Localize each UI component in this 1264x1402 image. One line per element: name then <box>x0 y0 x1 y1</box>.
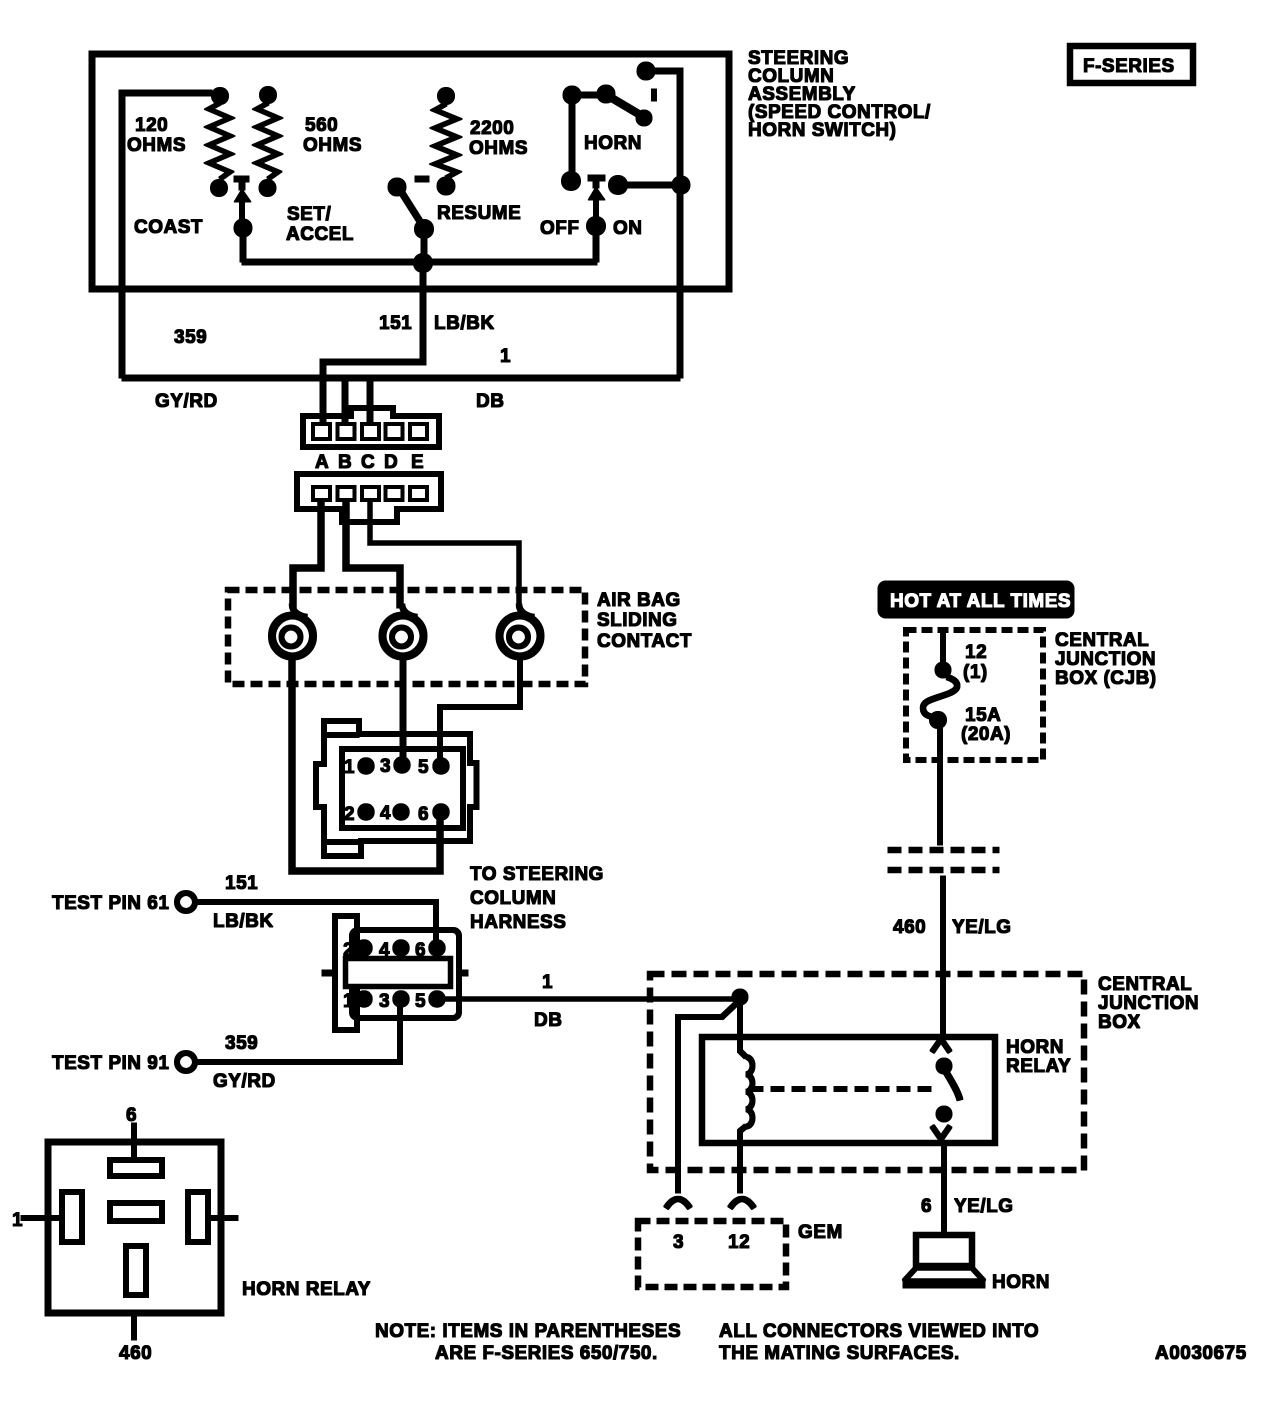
svg-text:2: 2 <box>343 940 354 961</box>
svg-text:3: 3 <box>379 991 390 1012</box>
wire pin C to coil 3 <box>370 500 519 608</box>
svg-text:TEST PIN 91: TEST PIN 91 <box>52 1053 169 1074</box>
air bag sliding contact box <box>228 590 585 684</box>
GEM box <box>638 1221 786 1287</box>
svg-text:3: 3 <box>673 1232 684 1253</box>
resistor R2 560 OHMS <box>257 87 278 197</box>
svg-text:359: 359 <box>174 327 207 348</box>
horn relay label <box>1006 1037 1071 1077</box>
svg-text:COAST: COAST <box>134 217 203 238</box>
svg-text:CENTRAL: CENTRAL <box>1055 630 1149 651</box>
test connector pins <box>356 940 445 1007</box>
resistor R3 2200 OHMS <box>435 88 457 196</box>
svg-text:C: C <box>361 452 375 473</box>
wire pin A to coil 1 <box>293 500 321 608</box>
svg-text:460: 460 <box>119 1343 152 1364</box>
label 120 OHMS <box>127 115 186 156</box>
wire drop to pin B <box>342 378 348 424</box>
connector pins 1-6 <box>358 757 449 820</box>
svg-text:SET/: SET/ <box>287 204 331 225</box>
central junction box label <box>1098 974 1199 1033</box>
steering column connector outline <box>316 721 477 856</box>
wire 460 YE/LG <box>941 876 946 1037</box>
steering column assembly label <box>748 48 931 141</box>
wire 359 GY/RD bus <box>122 375 680 381</box>
relay switch <box>932 1039 960 1139</box>
steering column assembly box <box>92 54 729 289</box>
svg-text:ARE F-SERIES 650/750.: ARE F-SERIES 650/750. <box>435 1343 658 1364</box>
wire pin B to coil 2 <box>346 500 400 608</box>
sliding contact coil 1 <box>272 604 313 657</box>
svg-text:5: 5 <box>415 991 426 1012</box>
sliding contact coil 3 <box>500 604 541 657</box>
svg-text:OFF: OFF <box>540 218 580 239</box>
svg-text:359: 359 <box>225 1033 258 1054</box>
svg-text:HORN SWITCH): HORN SWITCH) <box>748 120 896 141</box>
svg-text:1: 1 <box>542 972 553 993</box>
hot at all times banner <box>878 581 1074 618</box>
svg-text:12: 12 <box>728 1232 750 1253</box>
svg-text:GY/RD: GY/RD <box>213 1071 276 1092</box>
svg-text:BOX (CJB): BOX (CJB) <box>1055 668 1157 689</box>
svg-text:15A: 15A <box>965 705 1001 726</box>
wire set/accel to bus <box>240 228 246 262</box>
svg-text:HORN RELAY: HORN RELAY <box>242 1279 371 1300</box>
svg-text:HOT AT ALL TIMES: HOT AT ALL TIMES <box>890 591 1071 612</box>
svg-text:6: 6 <box>921 1196 932 1217</box>
svg-text:460: 460 <box>893 917 926 938</box>
svg-text:CONTACT: CONTACT <box>597 631 692 652</box>
svg-text:YE/LG: YE/LG <box>952 917 1012 938</box>
svg-text:5: 5 <box>418 757 429 778</box>
wire 151 LB/BK <box>323 263 423 424</box>
test pin 91 <box>177 1006 400 1071</box>
svg-text:ACCEL: ACCEL <box>286 224 354 245</box>
svg-text:BOX: BOX <box>1098 1012 1141 1033</box>
relay link dashed <box>750 1087 936 1092</box>
air bag label <box>597 590 692 652</box>
svg-text:OHMS: OHMS <box>469 138 528 159</box>
svg-text:NOTE: ITEMS IN PARENTHESES: NOTE: ITEMS IN PARENTHESES <box>375 1321 681 1342</box>
svg-text:560: 560 <box>305 115 338 136</box>
svg-text:ALL CONNECTORS VIEWED INTO: ALL CONNECTORS VIEWED INTO <box>719 1321 1039 1342</box>
svg-text:AIR BAG: AIR BAG <box>597 590 681 611</box>
svg-text:6: 6 <box>418 804 429 825</box>
GEM pin 3 terminal <box>666 1199 690 1208</box>
wire 1 DB to CJB <box>444 997 740 1002</box>
wire left feed <box>122 93 212 378</box>
svg-text:A: A <box>315 452 329 473</box>
svg-text:HARNESS: HARNESS <box>470 912 566 933</box>
fuse labels <box>961 642 1011 745</box>
svg-text:2200: 2200 <box>470 118 514 139</box>
connector C202 upper half <box>303 408 439 447</box>
GEM pin numbers <box>673 1232 750 1253</box>
note text <box>375 1321 1247 1364</box>
wire to GEM pin 3 <box>678 1000 740 1193</box>
svg-text:CENTRAL: CENTRAL <box>1098 974 1192 995</box>
horn relay box <box>702 1037 995 1143</box>
svg-text:JUNCTION: JUNCTION <box>1055 649 1156 670</box>
svg-text:JUNCTION: JUNCTION <box>1098 993 1199 1014</box>
svg-text:E: E <box>411 452 424 473</box>
svg-text:4: 4 <box>379 940 390 961</box>
svg-text:6: 6 <box>126 1105 137 1126</box>
off/on switch <box>562 104 691 236</box>
svg-text:1: 1 <box>344 757 355 778</box>
svg-text:120: 120 <box>135 115 168 136</box>
svg-text:(20A): (20A) <box>961 724 1011 745</box>
resistor R1 120 OHMS <box>209 88 230 197</box>
svg-text:6: 6 <box>415 940 426 961</box>
svg-text:HORN: HORN <box>584 133 642 154</box>
test pin 61 <box>177 893 436 941</box>
wire off/on common to bus <box>593 226 599 262</box>
svg-text:HORN: HORN <box>992 1272 1050 1293</box>
wire coil3 to pin5 <box>440 657 520 758</box>
junction node <box>414 254 433 273</box>
wire drop to pin C <box>367 378 373 424</box>
GEM pin 12 terminal <box>730 1199 754 1208</box>
svg-text:RELAY: RELAY <box>1006 1056 1071 1077</box>
svg-text:B: B <box>338 452 352 473</box>
svg-text:ON: ON <box>613 218 643 239</box>
svg-text:SLIDING: SLIDING <box>597 610 678 631</box>
pin letters A B C D E <box>315 452 424 473</box>
label SET/ACCEL <box>286 204 354 245</box>
svg-text:TEST PIN 61: TEST PIN 61 <box>52 893 169 914</box>
connector C202 lower half <box>297 474 441 522</box>
svg-text:A0030675: A0030675 <box>1155 1343 1247 1364</box>
svg-text:TO STEERING: TO STEERING <box>470 864 604 885</box>
svg-text:GY/RD: GY/RD <box>155 391 218 412</box>
svg-text:(1): (1) <box>963 662 988 683</box>
to steering column harness label <box>470 864 604 933</box>
CJB fuse box <box>906 630 1043 760</box>
central junction box 2 <box>650 974 1084 1170</box>
central junction box (CJB) label <box>1055 630 1157 689</box>
wire resume to bus <box>421 229 427 263</box>
label 560 OHMS <box>303 115 362 156</box>
fuse F12 <box>923 632 957 845</box>
svg-text:RESUME: RESUME <box>437 203 521 224</box>
sliding contact coil 2 <box>383 604 424 657</box>
test connector pin numbers <box>343 940 426 1012</box>
wire break <box>888 850 999 870</box>
svg-text:YE/LG: YE/LG <box>954 1196 1014 1217</box>
svg-text:LB/BK: LB/BK <box>213 911 274 932</box>
relay coil <box>740 997 753 1193</box>
svg-text:3: 3 <box>380 756 391 777</box>
horn switch <box>563 85 654 126</box>
set/accel switch <box>234 179 252 237</box>
svg-text:2: 2 <box>344 804 355 825</box>
svg-text:F-SERIES: F-SERIES <box>1083 56 1175 77</box>
test connector outline <box>322 916 468 1030</box>
horn relay pinout <box>12 1105 238 1364</box>
wire coil1 to pin6 <box>292 657 440 871</box>
wire bus horizontal <box>242 259 597 265</box>
svg-text:1: 1 <box>500 346 511 367</box>
svg-text:DB: DB <box>534 1010 562 1031</box>
svg-text:12: 12 <box>965 642 987 663</box>
svg-text:OHMS: OHMS <box>303 135 362 156</box>
svg-text:COLUMN: COLUMN <box>470 888 556 909</box>
label 2200 OHMS <box>469 118 528 159</box>
resume switch <box>388 178 434 239</box>
svg-text:THE MATING SURFACES.: THE MATING SURFACES. <box>719 1343 960 1364</box>
wire 6 YE/LG to horn <box>942 1143 947 1235</box>
svg-text:1: 1 <box>343 991 354 1012</box>
svg-text:D: D <box>384 452 398 473</box>
svg-text:DB: DB <box>476 391 504 412</box>
svg-text:LB/BK: LB/BK <box>434 313 495 334</box>
svg-text:GEM: GEM <box>798 1222 843 1243</box>
horn output wire <box>637 62 680 378</box>
svg-text:HORN: HORN <box>1006 1037 1064 1058</box>
wire coil2 to pin3 <box>400 657 406 758</box>
svg-text:151: 151 <box>225 873 258 894</box>
F-SERIES box <box>1070 46 1193 83</box>
svg-text:OHMS: OHMS <box>127 135 186 156</box>
pin numbers <box>344 756 429 825</box>
svg-text:151: 151 <box>379 313 412 334</box>
horn symbol <box>903 1235 985 1288</box>
node junction 1DB <box>732 989 748 1005</box>
svg-text:4: 4 <box>380 803 391 824</box>
